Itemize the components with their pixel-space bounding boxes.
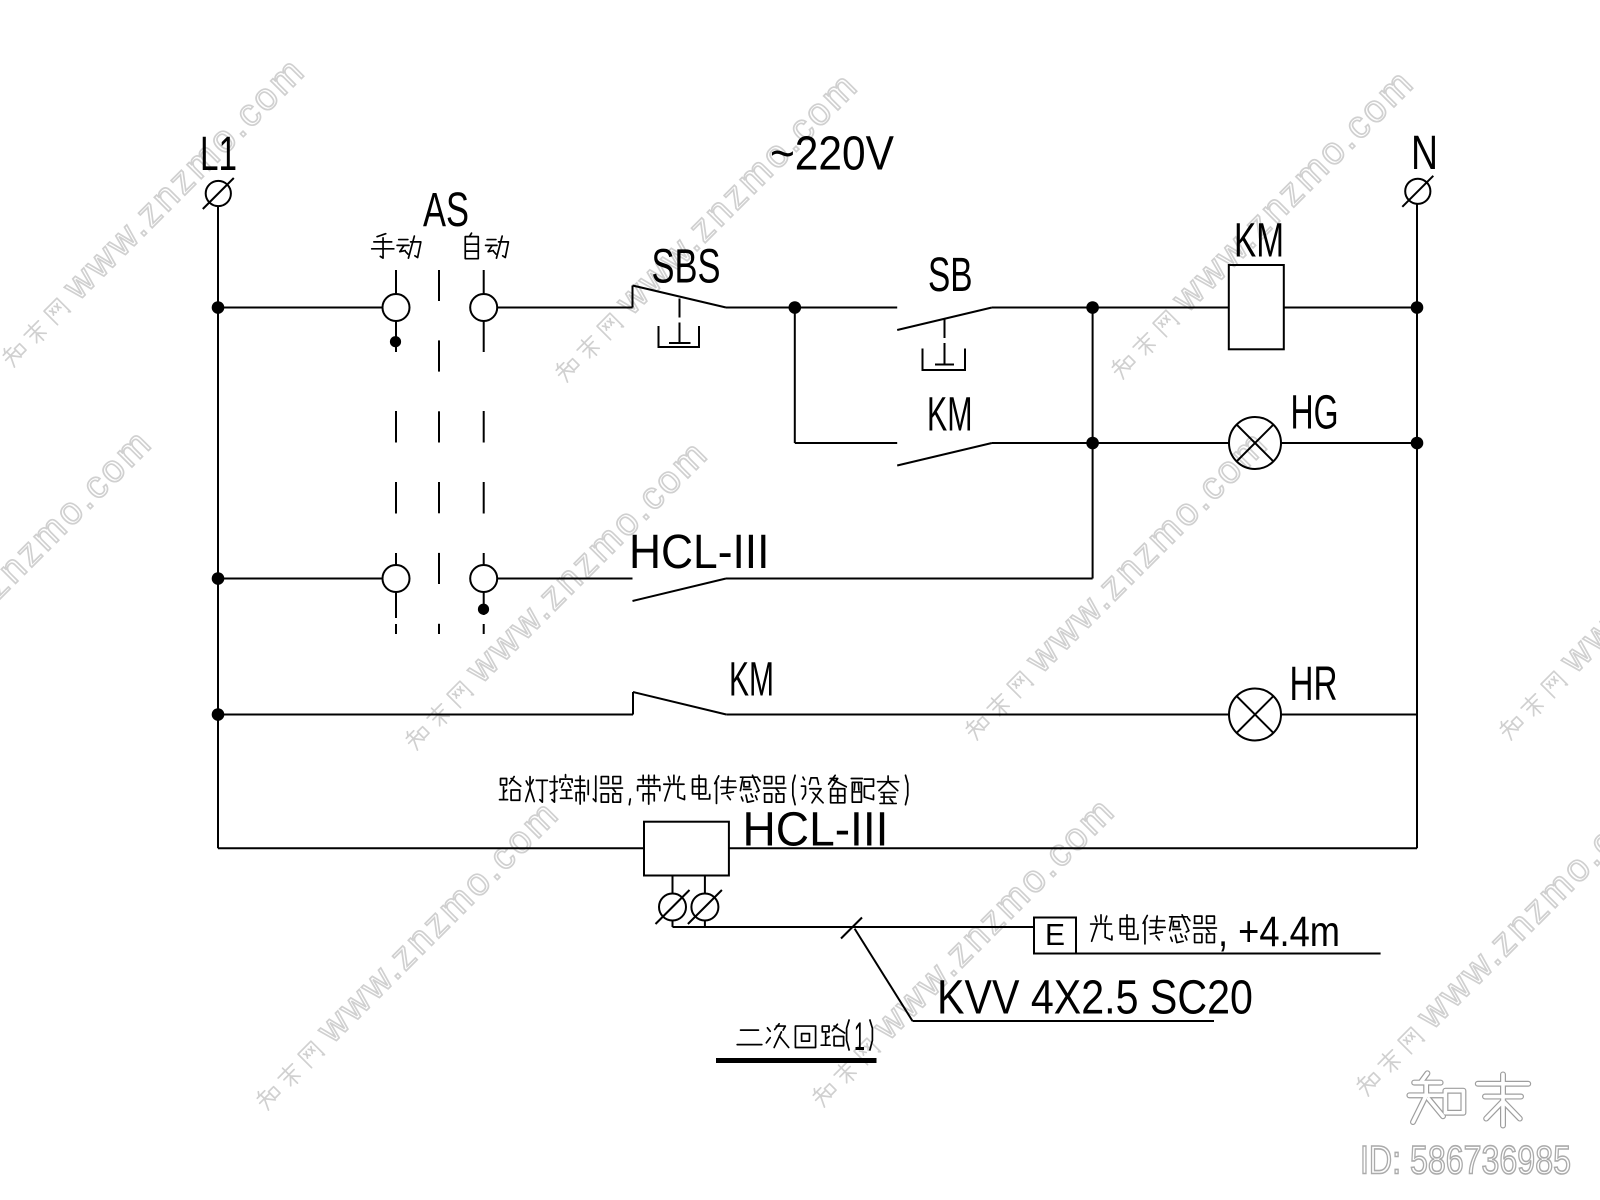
watermark band 7 (1486, 422, 1600, 747)
wire row1 AS to SBS (497, 307, 632, 309)
wire sensor line (672, 921, 674, 928)
switch KM aux blade (897, 443, 992, 466)
wire HG row to lamp (1093, 442, 1229, 444)
node junction after SB (1086, 301, 1099, 314)
wire left bus L1 vertical (217, 206, 219, 848)
label street light controller (Chinese) (500, 777, 521, 801)
leader line to cable label (855, 929, 913, 1021)
label HCL-III box (743, 802, 889, 856)
label HG (1291, 385, 1339, 439)
terminal stub right (704, 876, 706, 894)
svg-text:1: 1 (854, 1013, 865, 1059)
label KM aux contact (927, 387, 972, 441)
label KM contact row3 (729, 654, 774, 707)
wire bottom right segment (729, 847, 1417, 849)
wire row2 L1 to AS (218, 578, 383, 580)
terminal circle right (691, 894, 718, 921)
label AS manual (shou-dong) (372, 234, 394, 258)
wire row2 HCL-III to riser (726, 578, 1093, 580)
label AS (423, 182, 469, 236)
label E (1045, 918, 1065, 953)
wire right bus N vertical (1416, 204, 1418, 848)
svg-text:SB: SB (928, 248, 973, 301)
watermark band 6 (952, 422, 1277, 747)
switch AS contact manual row2 (383, 565, 410, 592)
sensor box underline (1076, 953, 1381, 955)
watermark band 10 (1343, 778, 1600, 1103)
switch SBS actuator stem (679, 299, 681, 318)
node junction row1 left (212, 301, 225, 314)
label sensor height +4.4m (1218, 908, 1340, 956)
svg-text:N: N (1411, 127, 1438, 181)
wire row1 SB to KM coil (992, 307, 1229, 309)
logo zhimo (watermark) (1409, 1073, 1463, 1122)
svg-text:KVV 4X2.5 SC20: KVV 4X2.5 SC20 (937, 972, 1253, 1025)
switch SB blade (897, 308, 992, 331)
watermark band 3 (1098, 61, 1423, 386)
AS linkage dashed line middle (438, 270, 440, 301)
node junction row3 left (212, 708, 225, 721)
svg-text:HG: HG (1291, 385, 1339, 439)
label L1 (200, 127, 237, 180)
svg-text:KM: KM (1234, 214, 1284, 267)
coil KM (1229, 265, 1284, 349)
title parenthesis 1 (847, 1019, 850, 1050)
svg-text:ID: 586736985: ID: 586736985 (1360, 1137, 1571, 1182)
node junction after SBS (789, 301, 802, 314)
wire to KM aux contact (795, 442, 897, 444)
label HR (1290, 657, 1338, 710)
switch SB actuator stem (944, 319, 946, 338)
wire HG lamp to N bus (1281, 442, 1417, 444)
switch AS contact manual row1 (383, 294, 410, 321)
wire bottom left segment (218, 847, 644, 849)
switch HCL-III blade (633, 579, 727, 602)
svg-text:HR: HR (1290, 657, 1338, 710)
controller box HCL-III (644, 822, 729, 876)
lamp HR (1229, 689, 1281, 741)
label SB (928, 248, 973, 301)
node dot below auto contact row2 (478, 604, 489, 615)
cable tick mark (841, 918, 862, 939)
switch SBS actuator cup (659, 326, 700, 347)
wire SB junction down to HG row (1092, 308, 1094, 579)
svg-text:SBS: SBS (652, 239, 721, 293)
wire row2 AS to HCL-III (497, 578, 632, 580)
title underline (716, 1058, 877, 1063)
wire row1 SBS to SB (726, 307, 897, 309)
label AS auto (zi-dong) (465, 233, 478, 259)
svg-text:KM: KM (927, 387, 972, 441)
label KM coil (1234, 214, 1284, 267)
terminal L1 (206, 181, 231, 206)
wire SBS junction down (794, 308, 796, 444)
label KVV 4X2.5 SC20 (937, 972, 1253, 1025)
wire KM coil to N bus (1284, 307, 1417, 309)
terminal stub left (672, 876, 674, 894)
watermark band 4 (0, 421, 161, 746)
sensor box E (1034, 918, 1076, 954)
switch AS contact auto row2 (470, 565, 497, 592)
watermark band 9 (799, 789, 1124, 1114)
svg-text:KM: KM (729, 654, 774, 707)
watermark band 2 (542, 64, 867, 389)
terminal circle left (659, 894, 686, 921)
wire row1 L1 to AS (218, 307, 383, 309)
wire row3 to KM contact (218, 714, 633, 716)
label N (1411, 127, 1438, 181)
wire KM aux to junction (992, 442, 1093, 444)
watermark band 8 (243, 792, 568, 1117)
wire HR lamp to N bus (1281, 714, 1417, 716)
svg-text:E: E (1045, 918, 1065, 953)
node junction row2 left (212, 572, 225, 585)
label SBS (652, 239, 721, 293)
svg-text:L1: L1 (200, 127, 237, 180)
svg-text:, +4.4m: , +4.4m (1218, 908, 1340, 956)
svg-text:AS: AS (423, 182, 469, 236)
lamp HG (1229, 417, 1281, 469)
label HCL-III contact (629, 524, 769, 578)
switch SBS blade (632, 286, 634, 308)
switch AS contact auto row1 (470, 294, 497, 321)
switch KM row3 blade (632, 692, 634, 715)
watermark band 1 (0, 49, 314, 374)
watermark ID number (1360, 1137, 1571, 1182)
svg-text:~220V: ~220V (770, 126, 895, 180)
switch SB actuator cup (923, 349, 966, 371)
label photoelectric sensor (Chinese) (1091, 915, 1112, 941)
label ~220V (770, 126, 895, 180)
AS linkage dashed line left (395, 270, 397, 294)
watermark band 5 (392, 432, 717, 757)
node junction HG row at N bus (1411, 437, 1424, 450)
node junction HG row left (1086, 437, 1099, 450)
AS linkage dashed line right (483, 270, 485, 294)
node dot below manual contact (390, 336, 401, 347)
node junction row1 at N bus (1411, 301, 1424, 314)
terminal N (1405, 179, 1430, 204)
svg-text:HCL-III: HCL-III (629, 524, 769, 578)
title secondary circuit (Chinese) (737, 1030, 762, 1045)
wire row3 KM to HR lamp (726, 714, 1229, 716)
